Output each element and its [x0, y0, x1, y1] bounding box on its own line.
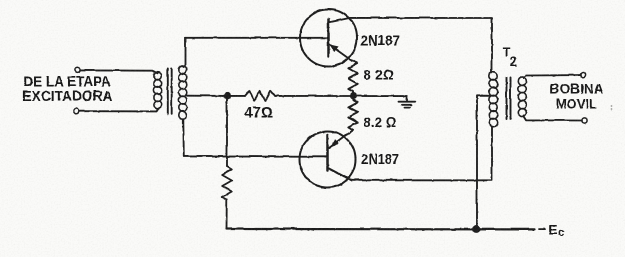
transformer T2 core: [506, 77, 510, 119]
svg-text:2N187: 2N187: [360, 32, 400, 49]
label 2N187 top: [360, 32, 400, 49]
label 2N187 bottom: [361, 151, 399, 168]
wire top rail collector Q1 to T2: [350, 17, 492, 72]
label BOBINA MOVIL: [549, 80, 603, 111]
transformer T2 secondary winding: [518, 77, 526, 116]
supply rail -Ec: [226, 227, 534, 230]
label 47 ohm: [244, 104, 273, 121]
label DE LA ETAPA EXCITADORA: [22, 73, 112, 104]
wire T1 secondary top up: [183, 37, 185, 66]
svg-text:c: c: [558, 226, 564, 238]
node junction emitters / ground: [350, 93, 355, 98]
input terminal top: [74, 67, 79, 72]
wire T2 center tap to supply rail: [477, 95, 490, 228]
resistor 47 ohm: [245, 90, 275, 100]
wire base bottom rail to Q2: [183, 155, 326, 157]
wire T1 center tap: [187, 94, 228, 96]
svg-text:MOVIL: MOVIL: [556, 95, 597, 111]
wire node to ground: [353, 95, 407, 97]
wire center tap to 47 ohm: [227, 94, 245, 96]
wire collector Q2 to T2 bottom: [351, 126, 492, 180]
label -Ec: [539, 221, 564, 239]
resistor bias (unlabeled): [222, 166, 232, 199]
svg-text:2: 2: [509, 53, 516, 68]
transformer T1 primary winding: [153, 72, 161, 109]
label 8.2 ohm top: [363, 66, 394, 82]
transformer T1 core: [167, 68, 171, 113]
wire 47 ohm to emitter node: [275, 94, 351, 96]
transformer T1 secondary winding: [178, 65, 186, 118]
svg-text:8.2 Ω: 8.2 Ω: [363, 114, 396, 130]
svg-text:EXCITADORA: EXCITADORA: [22, 88, 112, 105]
transistor Q1 2N187: [300, 9, 357, 66]
output terminal top: [580, 72, 585, 77]
node junction center tap / bias: [224, 93, 229, 98]
wire base top rail to Q1: [185, 36, 327, 38]
noise colon mark: [610, 105, 612, 110]
output terminal bottom: [581, 117, 586, 122]
resistor 8.2 ohm bottom: [348, 96, 357, 130]
label T2: [502, 45, 516, 68]
wire bias vertical from center tap node: [226, 95, 228, 166]
wire bias resistor to supply rail: [225, 199, 227, 229]
svg-text:BOBINA: BOBINA: [549, 80, 603, 96]
svg-text:2N187: 2N187: [361, 151, 399, 168]
svg-text:E: E: [548, 221, 557, 237]
ground: [398, 96, 415, 108]
transformer T2 primary winding: [489, 72, 497, 127]
resistor 8.2 ohm top: [348, 60, 357, 96]
svg-text:47Ω: 47Ω: [244, 104, 273, 121]
input terminal bottom: [73, 108, 78, 113]
svg-text:8 2Ω: 8 2Ω: [363, 66, 394, 82]
wire T2 secondary bottom to output terminal: [523, 115, 581, 120]
node junction T2 tap / supply rail: [473, 225, 480, 232]
wire input bottom to T1 primary: [79, 108, 158, 111]
wire T1 secondary bottom down: [182, 119, 185, 156]
label 8.2 ohm bottom: [363, 114, 396, 130]
wire input top to T1 primary: [80, 70, 157, 73]
wire T2 secondary top to output terminal: [523, 75, 580, 78]
transistor Q2 2N187: [299, 130, 355, 187]
